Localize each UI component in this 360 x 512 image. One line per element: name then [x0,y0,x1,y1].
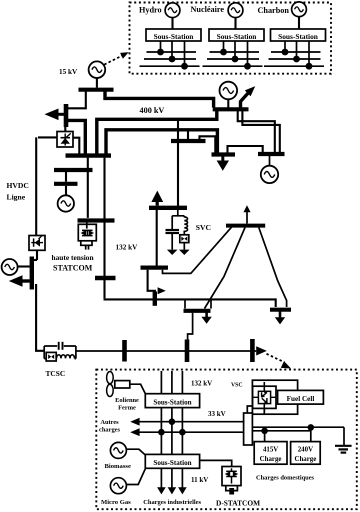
svg-text:132 kV: 132 kV [116,243,139,251]
wire mesh right diagonal [259,228,287,308]
wire double circuit A bus2 to bus5 [238,111,275,152]
export arrow up mesh [243,205,250,223]
domestic line upper [252,426,344,428]
tcsc thyristor box [46,352,56,361]
feeder line 2 mid [207,58,259,60]
wire mesh link west [163,227,232,273]
feeder drop 2a [223,41,225,52]
wire G1 to substation 1 [171,18,173,30]
feeder drop 3b [296,41,298,59]
svg-text:11 kV: 11 kV [191,476,208,484]
bar12 [250,339,255,362]
wire bus4 to statcom bus long [103,158,105,299]
wire drop to busL east [210,300,212,309]
wire busB to G3m [65,186,67,196]
svc capacitor [166,230,180,250]
wire busL to tcsc line [188,313,193,349]
HVDC converter box [57,132,73,148]
junction dot 2a [220,49,227,56]
svg-text:VSC: VSC [231,383,243,389]
svg-text:15 kV: 15 kV [59,68,78,76]
substation SS1 [145,394,199,408]
svg-text:Eolienne: Eolienne [115,397,139,404]
wire 400kV line4 bus4 to bar6 [106,130,217,154]
load arrow West [45,109,65,121]
dstatcom dc capacitor [229,488,234,495]
generator G15 15kV [89,61,106,78]
dashed link to distribution [267,354,285,363]
substation box 1 [146,29,201,41]
bus 132kV upper [149,206,187,210]
generator biomasse [110,442,126,458]
statcom box [78,223,96,241]
wire 33kV corridor [76,350,256,352]
load box 415V [254,442,287,465]
connector outer box to rect [247,406,252,415]
generator G1 Hydro [165,3,180,18]
bar9 [153,292,157,306]
feeder vertical 1 [160,371,162,488]
feeder vertical 3 [181,371,183,488]
wind turbine nacelle [115,381,130,388]
bar10 [122,340,127,362]
tcsc capacitor plates [59,342,63,350]
svg-text:Autres: Autres [100,419,119,426]
statcom dc capacitor [86,245,89,250]
bar11 [185,340,190,363]
wire G4 to bus2 [227,99,229,107]
load arrow busL [201,313,211,324]
bar8 vertical bus [30,257,34,290]
bus4 400kV West [66,153,112,157]
mesh top bus [226,224,265,228]
wire G15 to bus1 [96,78,98,88]
svg-text:132 kV: 132 kV [191,379,212,387]
junction dot 3b [293,56,300,63]
generation dashed box [130,3,332,74]
busL mesh load bus [184,309,211,313]
HVDC line wire [35,137,37,235]
generator micro gas [110,478,126,494]
generator G3 Charbon [292,2,307,17]
flow arrow corridor [256,346,267,355]
busA [54,168,93,172]
svg-text:HVDC: HVDC [7,181,29,190]
wire tap to bus3 and 132kV bus [177,121,179,206]
drop to 415V box [264,431,266,442]
generator G2 Nucleaire [228,3,243,18]
svg-text:Charges industrielles: Charges industrielles [143,499,201,506]
svg-text:Nucléaire: Nucléaire [191,5,225,14]
ground svc inductor [179,250,190,255]
wire converter stub to line2 [64,122,66,132]
junction dot 1a [157,49,164,56]
tcsc loop left edge [43,346,45,359]
wire bar8 to tcsc corner [36,284,44,351]
wire double circuit B bus2 to bus5 [242,111,279,152]
svg-text:Sous-Station: Sous-Station [217,32,257,41]
export arrow NE [241,86,256,109]
wire valve to bar8 [36,250,38,260]
autres line 2 [138,431,244,433]
wire bus4 to busA [87,158,89,218]
svg-text:415V: 415V [263,447,278,454]
load arrow bar6 [217,157,229,171]
svg-text:Fuel Cell: Fuel Cell [287,395,315,403]
wire turbine to SS1 [130,384,146,393]
bar7 bus on long line [95,276,116,280]
bar6 load bus [212,152,236,156]
junction dot 3c [306,63,313,70]
tcsc loop right edge [75,346,77,359]
wire 400kV line2 node bar to bus2 [68,120,86,153]
feeder line 3 top [271,51,321,53]
wire G2 to substation 2 [234,18,236,30]
junction dot 1c [181,63,188,70]
svg-text:SVC: SVC [196,223,211,232]
ground symbol [335,427,352,452]
svc inductor [184,217,187,235]
feeder drop 1a [160,41,162,52]
wire tap line4 to bus3 [187,130,189,140]
feeder vertical 2 [171,371,173,488]
arrowhead into distribution box [281,361,291,368]
svc feeder [172,210,184,229]
drop to 240V box [310,427,312,441]
dot line1 feeder2 [169,418,176,425]
svg-text:Sous-Station: Sous-Station [153,398,191,406]
feeder line 3 mid [269,58,321,60]
bus1 15kV bus [79,88,114,92]
wire 400kV line3 bus4 to bus2 [97,110,217,154]
autres arrow 2 [130,428,139,436]
svg-text:D-STATCOM: D-STATCOM [216,498,260,507]
wire bar6 to bus5 [228,146,263,153]
svg-text:400 kV: 400 kV [140,106,165,115]
wire biomasse to SS2 [126,449,145,455]
svg-text:Biomasse: Biomasse [105,463,131,470]
tcsc loop top edge [44,345,76,347]
dot line2 feeder1 [158,429,165,436]
feeder line 2 top [210,51,260,53]
feeder drop 1c [184,41,186,66]
fuel cell box [278,390,324,404]
dot line2 feeder3 [179,429,186,436]
svg-text:Sous-Station: Sous-Station [153,459,191,467]
wire 132kV upper to lower [156,210,158,266]
tcsc loop bottom edge [44,358,76,360]
svg-text:charges: charges [99,427,120,434]
feeder arrow 3 [178,487,187,494]
wind turbine blades [107,372,114,397]
dot 240V [308,424,315,431]
feeder line 2 bottom [203,65,263,67]
svg-text:STATCOM: STATCOM [53,263,93,272]
junction dot 3a [282,49,289,56]
busB [54,182,78,186]
wire drop to busL west [184,300,186,309]
ground svc capacitor [167,250,178,255]
load arrow busR [275,312,285,325]
domestic line lower [252,430,310,432]
wire interconnection long [104,298,276,307]
wire stub to bar8 [33,259,37,261]
svg-text:Charbon: Charbon [258,6,290,15]
node bar West [64,104,69,127]
feeder line 1 bottom [140,65,200,67]
load box 240V [291,442,321,465]
feeder arrow 2 [168,487,177,494]
feeder drop 3a [284,41,286,52]
wire bus1 to node bar [68,92,86,109]
feeder line 3 bottom [264,65,324,67]
autres arrow 1 [130,418,139,426]
vsc converter box [253,382,276,412]
wire converter to HVDC line [38,136,57,138]
dstatcom box [222,467,241,486]
wire 132kV lower to bar9 [148,270,156,291]
feeder drop 2b [234,41,236,59]
wire busA to busB [65,172,67,182]
wire bus3 to bar6 [200,136,216,152]
svg-text:Charge: Charge [294,456,316,463]
svg-text:Sous-Station: Sous-Station [278,32,318,41]
substation SS2 [145,454,199,468]
bus3 [171,139,206,143]
distribution dashed box [96,370,357,510]
svg-text:Sous-Station: Sous-Station [154,32,194,41]
svg-text:33 kV: 33 kV [208,410,226,418]
substation box 2 [209,29,264,41]
dashed arrow G15 to generation box [104,52,129,64]
wire SS2 to dstatcom [200,460,232,466]
svg-text:TCSC: TCSC [46,369,66,378]
bus2 400kV East [213,107,249,111]
svg-text:Ferme: Ferme [118,405,136,412]
generator G5 [261,166,278,183]
feeder line 1 top [147,51,197,53]
load arrow bar8 [9,275,30,286]
svc thyristor box [180,235,189,243]
feeder drop 2c [247,41,249,66]
statcom bus [78,218,115,222]
bus 132kV lower [141,266,169,270]
statcom dc link legs [81,241,92,246]
feeder drop 1b [171,41,173,59]
wire 400kV line1 bus1 to bus2 [105,92,214,108]
autres line 1 [138,421,244,423]
feeder drop 3c [308,41,310,66]
flow arrow right at bar9 [158,287,166,294]
generator G3m [58,195,74,211]
svg-text:haute tension: haute tension [52,253,94,262]
vsc outer box [252,380,297,414]
svg-text:Charges domestiques: Charges domestiques [256,474,315,481]
wire converter to bus4 [73,138,79,154]
junction dot 2c [244,63,251,70]
wire mesh mid diagonal [205,228,246,309]
substation box 3 [271,29,326,41]
export arrow up 132kV [151,191,163,206]
tcsc inductor [57,355,75,359]
dot 415V [261,428,268,435]
generator G4 [220,82,238,100]
vsc to rect connector [263,408,265,414]
feeder arrow 1 [157,487,166,494]
wire micro gas to SS2 [126,469,145,485]
HVDC valve box [29,236,45,251]
svg-text:Charge: Charge [260,456,282,463]
svg-text:Hydro: Hydro [139,5,162,14]
svg-text:240V: 240V [298,447,313,454]
dstatcom dc legs [226,486,238,491]
wire G6 to bar8 [18,265,30,267]
wire G3 to substation 3 [298,17,300,30]
bus5 [258,152,285,156]
busR mesh load bus [270,308,291,312]
junction dot 1b [169,56,176,63]
bus rect 33kV [244,413,253,445]
junction dot 2b [232,56,239,63]
feeder line 1 mid [144,58,196,60]
generator G6 [2,259,18,275]
svg-text:Ligne: Ligne [7,193,26,202]
svc box to ground [183,243,185,250]
wire G5 to bus5 [269,156,271,166]
svg-text:Micro Gas: Micro Gas [101,499,131,506]
